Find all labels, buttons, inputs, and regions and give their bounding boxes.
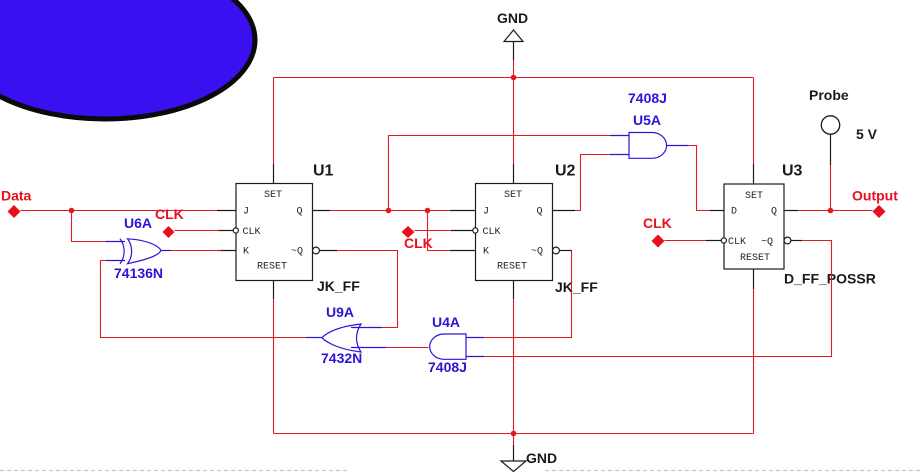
- flip-flop U1 (JK_FF): [217, 164, 337, 299]
- and gate U4A (7408J, mirrored): [430, 334, 484, 359]
- wire U1 Q to U2 J: [330, 210, 450, 212]
- svg-text:7408J: 7408J: [428, 359, 467, 375]
- svg-text:U5A: U5A: [633, 112, 661, 128]
- flip-flop U3 (D_FF_POSSR): [706, 164, 802, 289]
- svg-text:Output: Output: [852, 188, 898, 204]
- probe (5 V): [821, 116, 839, 134]
- junction Q branch 1: [386, 208, 392, 214]
- xor gate U6A (74136N): [106, 239, 171, 264]
- wire Data branch down to U6A input A: [72, 211, 107, 242]
- svg-text:U6A: U6A: [124, 215, 152, 231]
- wire U6A output to U1 K: [171, 250, 221, 252]
- terminal diamond Data: [8, 205, 21, 218]
- svg-text:U2: U2: [555, 163, 576, 180]
- wire U1 SET drop: [273, 78, 275, 165]
- ground symbol GND (bottom): [501, 445, 526, 472]
- svg-text:J: J: [483, 207, 489, 218]
- svg-text:Q: Q: [297, 207, 303, 218]
- wire U5A output to U3 D: [688, 146, 710, 211]
- svg-text:U3: U3: [782, 163, 803, 180]
- junction bottom rail / GND: [511, 431, 517, 437]
- wire CLK to U2 CLK: [415, 230, 452, 232]
- terminal diamond CLK (right): [652, 235, 665, 248]
- svg-text:K: K: [243, 247, 249, 258]
- wire CLK to U1 CLK: [175, 230, 220, 232]
- svg-text:RESET: RESET: [740, 253, 770, 264]
- wire GND top to rail: [513, 60, 515, 78]
- wire U2 ~Q to U4A input A: [484, 251, 572, 338]
- decorative blue ellipse (top-left, partially off-canvas): [0, 0, 255, 119]
- flip-flop U2 (JK_FF): [450, 164, 575, 299]
- and gate U5A (7408J): [610, 133, 688, 159]
- svg-text:JK_FF: JK_FF: [317, 278, 360, 294]
- svg-text:Q: Q: [771, 207, 777, 218]
- wire U2 Q to U5A input B: [575, 155, 610, 211]
- wire CLK to U3 CLK: [665, 240, 707, 242]
- svg-text:~Q: ~Q: [531, 247, 543, 258]
- ground symbol GND (top): [504, 30, 523, 60]
- wire U3 SET drop: [753, 78, 755, 165]
- svg-text:RESET: RESET: [257, 262, 287, 273]
- svg-text:GND: GND: [497, 10, 528, 26]
- svg-text:RESET: RESET: [497, 262, 527, 273]
- svg-text:U4A: U4A: [432, 314, 460, 330]
- page boundary dashes (bottom): [0, 470, 348, 472]
- svg-text:SET: SET: [264, 190, 282, 201]
- svg-text:GND: GND: [526, 450, 557, 466]
- svg-text:Probe: Probe: [809, 87, 849, 103]
- svg-text:D_FF_POSSR: D_FF_POSSR: [784, 271, 876, 287]
- wire Q down to U2 K: [428, 211, 451, 251]
- wire probe to output net: [830, 165, 832, 211]
- terminal diamond CLK (left): [163, 226, 175, 238]
- svg-text:Q: Q: [537, 207, 543, 218]
- svg-text:SET: SET: [745, 191, 763, 202]
- junction Data branch: [69, 208, 75, 214]
- wire U3 ~Q to U4A input B: [484, 241, 832, 357]
- svg-text:JK_FF: JK_FF: [555, 279, 598, 295]
- junction probe tap: [828, 208, 834, 214]
- junction top rail / GND: [511, 75, 517, 81]
- svg-text:~Q: ~Q: [761, 237, 773, 248]
- wire Data to U1 J: [21, 210, 218, 212]
- terminal diamond Output: [873, 205, 886, 218]
- junction Q branch 2: [425, 208, 431, 214]
- svg-text:CLK: CLK: [483, 227, 501, 238]
- svg-text:J: J: [243, 207, 249, 218]
- svg-text:74136N: 74136N: [114, 265, 163, 281]
- wire U1 ~Q feedback to U9A input A: [337, 251, 398, 328]
- wire U3 Q to Output: [798, 210, 873, 212]
- wire U3 RESET drop: [753, 289, 755, 434]
- wire U4A output to U9A input B: [386, 347, 429, 349]
- wire top SET rail: [274, 77, 754, 79]
- wire U9A output to U6A input B: [101, 261, 307, 338]
- svg-text:~Q: ~Q: [291, 247, 303, 258]
- terminal diamond CLK (middle): [402, 226, 415, 238]
- wire U2 RESET drop: [513, 299, 515, 434]
- svg-text:CLK: CLK: [643, 215, 672, 231]
- or gate U9A (7432N, mirrored): [306, 324, 386, 352]
- svg-text:Data: Data: [1, 188, 32, 204]
- svg-text:7408J: 7408J: [628, 90, 667, 106]
- wire bottom reset rail: [274, 433, 754, 435]
- svg-text:D: D: [731, 207, 737, 218]
- svg-text:U1: U1: [313, 163, 334, 180]
- svg-text:SET: SET: [504, 190, 522, 201]
- svg-text:CLK: CLK: [243, 227, 261, 238]
- svg-text:CLK: CLK: [728, 237, 746, 248]
- wire to GND bottom: [513, 434, 515, 446]
- svg-text:U9A: U9A: [326, 304, 354, 320]
- wire Q up to U5A input A: [389, 136, 611, 211]
- wire U2 SET drop: [513, 78, 515, 165]
- svg-text:K: K: [483, 247, 489, 258]
- svg-text:7432N: 7432N: [321, 350, 362, 366]
- wire U1 RESET drop: [273, 299, 275, 434]
- svg-text:5 V: 5 V: [856, 126, 878, 142]
- svg-text:CLK: CLK: [155, 206, 184, 222]
